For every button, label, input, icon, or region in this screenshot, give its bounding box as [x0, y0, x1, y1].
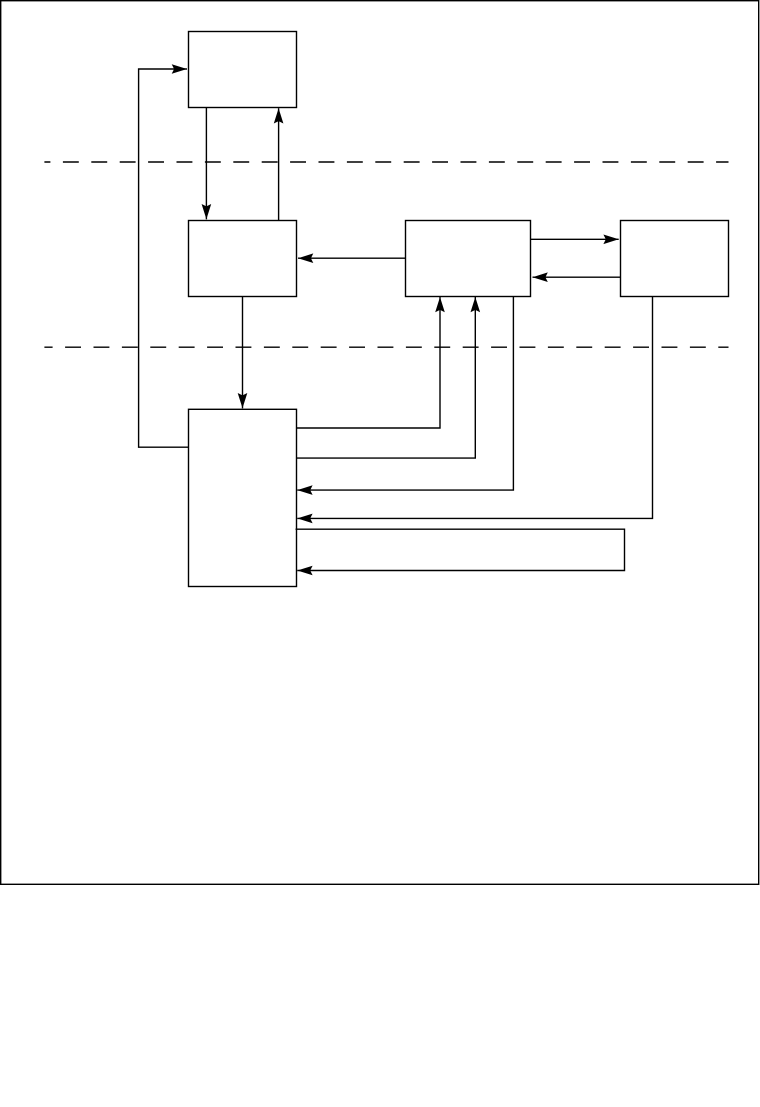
- wire E self-loop (out right, down, back left with arrow): [296, 529, 625, 570]
- box C (middle center): [406, 221, 531, 297]
- wire D to C (left arrow): [533, 276, 621, 278]
- box A (top): [189, 32, 297, 108]
- wire E to C second (up arrow at x=475): [297, 297, 476, 458]
- page border frame: [1, 1, 759, 885]
- wire E to A (feedback, left side, arrow into A left edge): [139, 69, 189, 447]
- wire C to B (left arrow): [298, 257, 406, 259]
- wire B to A (up arrow): [278, 108, 280, 220]
- dashed separator line 1: [44, 161, 728, 163]
- box B (middle left): [189, 221, 297, 297]
- box E (tall, bottom left): [189, 409, 297, 586]
- wire E to C first (up arrow at x=440): [297, 297, 441, 428]
- box D (middle right): [621, 221, 729, 297]
- dashed separator line 2: [44, 346, 728, 348]
- wire A to B (down arrow): [205, 108, 207, 220]
- wire C to D (right arrow): [531, 238, 619, 240]
- wire B to E (down arrow): [242, 297, 244, 409]
- wire D to E (left arrow into E right edge): [297, 296, 652, 518]
- wire C to E (left arrow into E right edge): [297, 296, 513, 490]
